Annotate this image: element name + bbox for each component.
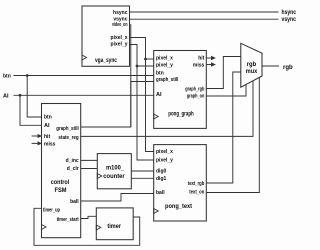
svg-text:graph_still: graph_still — [156, 77, 179, 83]
node pixel_x junction — [144, 58, 147, 61]
node AI junction — [19, 94, 22, 97]
svg-text:AI: AI — [156, 92, 162, 98]
wire btn — [14, 75, 154, 77]
svg-text:pixel_y: pixel_y — [156, 158, 173, 164]
wire miss arrow out of pong_graph — [206, 64, 212, 66]
svg-text:timer: timer — [107, 223, 121, 230]
wire pixel_x — [130, 38, 154, 152]
svg-text:state_reg: state_reg — [58, 135, 78, 141]
svg-text:m100_: m100_ — [106, 164, 124, 171]
wire graph_still — [81, 82, 154, 128]
wire dig1 — [131, 177, 153, 179]
pong_graph clock pin — [154, 114, 159, 119]
svg-text:AI: AI — [44, 123, 50, 129]
wire hit arrow out of pong_graph — [206, 57, 212, 59]
svg-text:text_on: text_on — [189, 189, 204, 195]
wire ball — [81, 194, 154, 202]
svg-text:FSM: FSM — [55, 187, 67, 194]
pong_graph block U2 — [154, 51, 207, 129]
vga_sync block U1 — [82, 6, 130, 66]
wire timer output to timer_up — [34, 208, 140, 245]
wire video_on — [130, 25, 131, 127]
svg-text:hsync: hsync — [282, 10, 297, 16]
wire dig0 — [131, 170, 153, 172]
svg-text:d_clr: d_clr — [67, 166, 79, 172]
wire AI — [14, 94, 154, 96]
svg-text:pong_text: pong_text — [165, 203, 193, 210]
wire pixel_x stub to pong_graph — [146, 58, 154, 60]
wire miss arrow into FSM — [32, 142, 39, 144]
svg-text:graph_still: graph_still — [56, 126, 79, 132]
wire btn to FSM — [27, 76, 41, 118]
rgb mux U7 — [241, 43, 262, 87]
svg-text:miss: miss — [44, 141, 56, 147]
svg-text:dig0: dig0 — [156, 169, 166, 175]
wire pixel_y — [130, 45, 154, 161]
svg-text:btn: btn — [44, 115, 52, 121]
wire state_reg to mux — [81, 81, 253, 137]
FSM clock pin — [42, 225, 47, 230]
timer clock pin — [96, 225, 101, 230]
svg-text:graph_on: graph_on — [187, 94, 205, 100]
wire text_on to mux — [206, 77, 259, 192]
pong_text block U3 — [154, 145, 207, 221]
svg-text:counter: counter — [103, 173, 125, 180]
wire graph_rgb to mux — [206, 57, 241, 89]
node btn junction — [26, 74, 29, 77]
svg-text:graph_rgb: graph_rgb — [185, 86, 204, 92]
timer block U6 — [96, 208, 133, 240]
wire d_clr — [81, 168, 98, 170]
svg-text:pixel_x: pixel_x — [156, 149, 173, 155]
wire AI to FSM — [20, 95, 42, 125]
svg-text:rgb: rgb — [247, 61, 257, 68]
wire vsync — [130, 18, 279, 20]
svg-text:d_inc: d_inc — [66, 158, 79, 164]
svg-text:btn: btn — [3, 74, 11, 80]
svg-text:timer_up: timer_up — [43, 208, 60, 214]
wire text_rgb to mux — [206, 72, 241, 183]
vga_sync clock pin — [82, 55, 87, 60]
counter clock pin — [97, 174, 102, 179]
svg-text:mux: mux — [246, 68, 258, 75]
svg-text:vga_sync: vga_sync — [95, 57, 117, 64]
wire timer_start — [81, 216, 97, 218]
wire graph_on to mux — [206, 85, 246, 97]
svg-text:pixel_x: pixel_x — [111, 35, 128, 41]
wire hsync — [130, 11, 279, 13]
wire hit arrow into FSM — [32, 135, 39, 137]
svg-text:pixel_y: pixel_y — [111, 41, 128, 47]
svg-text:timer_start: timer_start — [57, 217, 79, 223]
svg-text:dig1: dig1 — [156, 176, 166, 182]
svg-text:btn: btn — [156, 70, 164, 76]
wire pixel_y stub to pong_graph — [137, 65, 154, 67]
svg-text:ball: ball — [156, 190, 165, 196]
wire rgb output — [262, 65, 279, 67]
m100_counter block U5 — [97, 154, 131, 189]
svg-text:video_on: video_on — [112, 22, 128, 28]
svg-text:pong_graph: pong_graph — [168, 110, 194, 117]
svg-text:ball: ball — [70, 199, 79, 205]
svg-text:text_rgb: text_rgb — [188, 181, 205, 187]
svg-text:AI: AI — [3, 93, 9, 99]
svg-text:miss: miss — [193, 62, 205, 68]
svg-text:hsync: hsync — [113, 10, 128, 16]
node pixel_y junction — [136, 65, 139, 68]
svg-text:control: control — [51, 179, 70, 186]
svg-text:rgb: rgb — [283, 65, 293, 71]
control FSM block U4 — [42, 104, 81, 238]
svg-text:vsync: vsync — [282, 17, 297, 23]
svg-text:hit: hit — [198, 55, 204, 61]
pong_text clock pin — [154, 209, 159, 214]
wire d_inc — [81, 159, 98, 161]
svg-text:hit: hit — [44, 134, 50, 140]
svg-text:pixel_x: pixel_x — [156, 55, 173, 61]
svg-text:pixel_y: pixel_y — [156, 62, 173, 68]
